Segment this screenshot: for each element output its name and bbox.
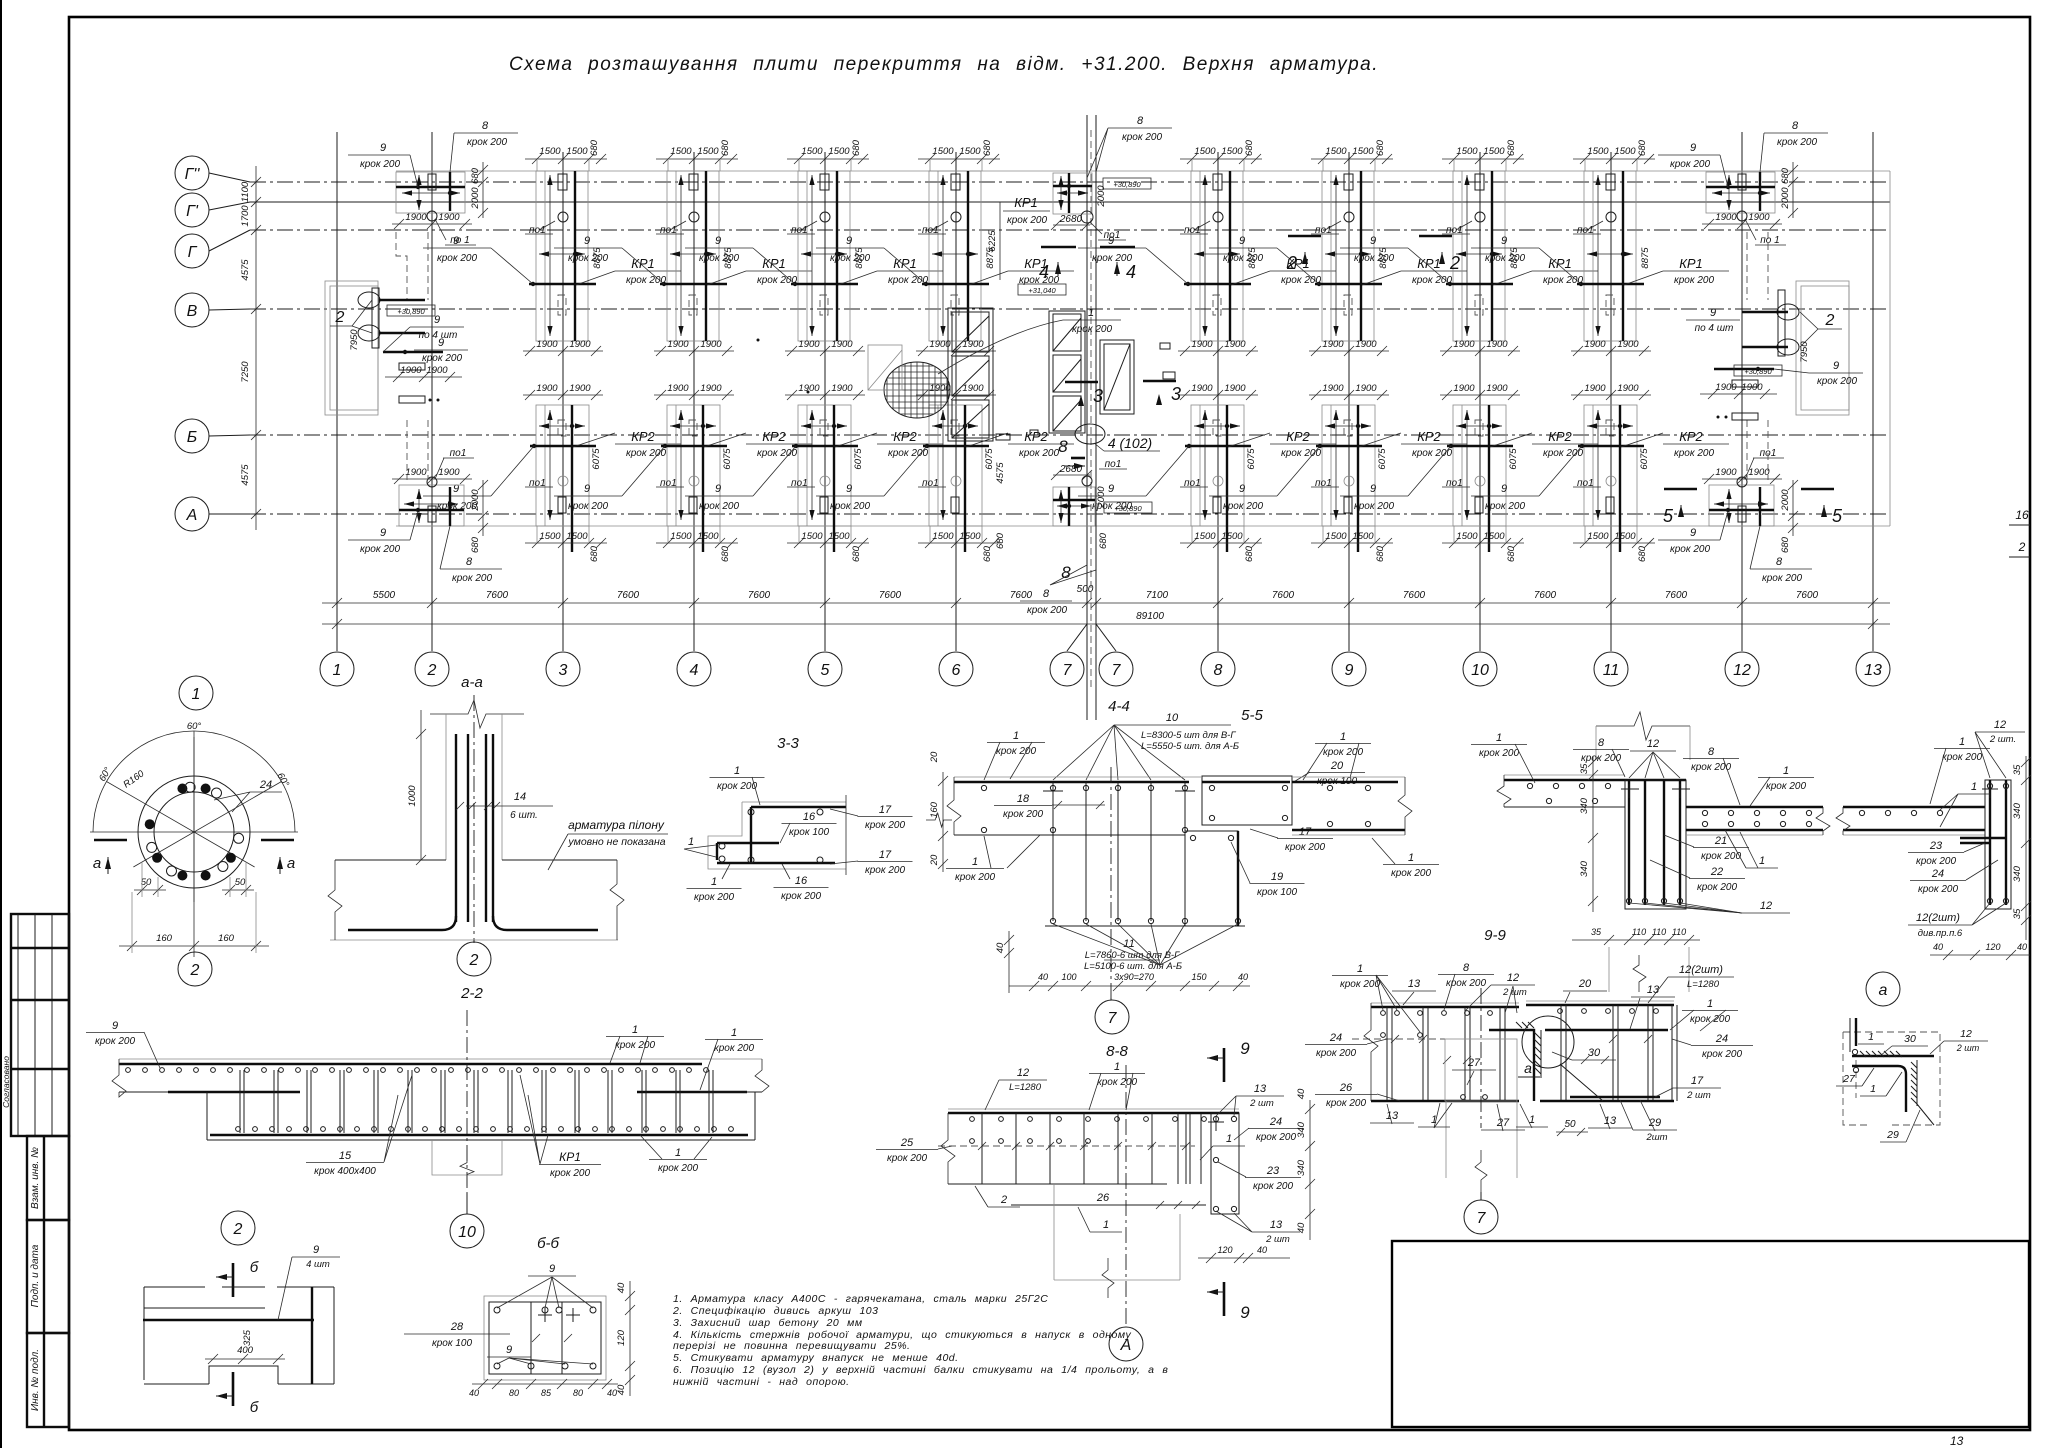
svg-text:110: 110 xyxy=(1632,927,1646,937)
svg-text:+30,890: +30,890 xyxy=(1113,180,1141,189)
2-2 left step xyxy=(206,1092,208,1140)
grid bubble 4 xyxy=(677,652,711,686)
svg-text:6075: 6075 xyxy=(853,448,864,470)
grid column 3 line xyxy=(562,152,564,651)
svg-text:крок 200: крок 200 xyxy=(955,872,995,883)
svg-text:крок 100: крок 100 xyxy=(789,827,829,838)
corner reinforcement module (top) at x=1742 xyxy=(1658,120,1828,246)
pylon 160 160 dim xyxy=(119,945,269,947)
svg-text:6075: 6075 xyxy=(1508,448,1519,470)
grid bubble 10 xyxy=(1463,652,1497,686)
svg-text:4575: 4575 xyxy=(240,259,251,281)
svg-text:1: 1 xyxy=(675,1147,681,1159)
svg-text:21: 21 xyxy=(1714,835,1727,847)
svg-text:1: 1 xyxy=(1226,1133,1232,1145)
node a diagonal xyxy=(1917,1104,1934,1125)
grid row Г'' xyxy=(209,173,250,182)
svg-text:24: 24 xyxy=(1329,1032,1342,1044)
svg-text:1: 1 xyxy=(1357,963,1363,975)
svg-text:27: 27 xyxy=(1467,1057,1481,1069)
svg-text:крок 200: крок 200 xyxy=(1354,501,1394,512)
8-8 bubble A xyxy=(1109,1327,1143,1361)
svg-text:крок 100: крок 100 xyxy=(432,1338,472,1349)
svg-text:Б: Б xyxy=(187,429,197,446)
svg-text:1900: 1900 xyxy=(700,383,722,394)
svg-text:8875: 8875 xyxy=(1640,247,1651,269)
left shaft door ovals xyxy=(358,292,380,308)
svg-text:А: А xyxy=(186,507,198,524)
8-8 extra verticals right part xyxy=(1177,1113,1179,1184)
svg-text:по1: по1 xyxy=(450,448,467,459)
grid column 5 line xyxy=(824,152,826,651)
svg-text:1900: 1900 xyxy=(1584,383,1606,394)
svg-text:1500: 1500 xyxy=(1194,146,1216,157)
2-2 center bracket xyxy=(432,1140,502,1175)
svg-text:1900: 1900 xyxy=(1617,383,1639,394)
node a hatch strip vertical xyxy=(1911,1062,1917,1104)
grid row Г xyxy=(209,230,250,251)
svg-text:1900: 1900 xyxy=(1715,212,1737,223)
svg-text:крок 200: крок 200 xyxy=(360,544,400,555)
svg-text:1: 1 xyxy=(333,662,342,679)
svg-text:1900: 1900 xyxy=(536,383,558,394)
svg-text:9: 9 xyxy=(1370,235,1376,247)
svg-text:1900: 1900 xyxy=(1322,339,1344,350)
svg-text:1500: 1500 xyxy=(1456,531,1478,542)
svg-text:1700: 1700 xyxy=(240,205,251,227)
8-8 line under 26 xyxy=(1011,1204,1206,1206)
svg-text:12: 12 xyxy=(1994,719,2006,731)
svg-text:17: 17 xyxy=(879,804,892,816)
svg-text:крок 200: крок 200 xyxy=(830,501,870,512)
svg-text:27: 27 xyxy=(1496,1117,1510,1129)
svg-text:1900: 1900 xyxy=(400,365,422,376)
svg-text:3х90=270: 3х90=270 xyxy=(1114,972,1154,982)
4-4/5-5 shared slab piece right xyxy=(1292,776,1405,778)
4-4 right boxes xyxy=(1202,776,1292,825)
KP2 reinforcement module at x=1611 xyxy=(1471,383,1729,562)
svg-text:крок 200: крок 200 xyxy=(360,159,400,170)
KP2 reinforcement module at x=1349 xyxy=(1209,383,1467,562)
right end detail column box xyxy=(1985,780,2011,909)
svg-text:19: 19 xyxy=(1271,871,1283,883)
svg-text:крок 200: крок 200 xyxy=(95,1036,135,1047)
pylon inner circle xyxy=(154,792,234,872)
right stair shaft outline xyxy=(1796,281,1849,415)
svg-text:КР2: КР2 xyxy=(631,429,655,444)
KP1 reinforcement module at x=825 xyxy=(685,139,943,356)
svg-text:2: 2 xyxy=(233,1221,243,1238)
9-9 center dashdot xyxy=(1480,988,1482,1128)
svg-text:1900: 1900 xyxy=(438,212,460,223)
grid bubble 7 xyxy=(1099,652,1133,686)
svg-text:40: 40 xyxy=(469,1388,479,1398)
svg-text:1900: 1900 xyxy=(1715,467,1737,478)
8-8 section marks 9 xyxy=(1223,1048,1226,1082)
svg-text:1: 1 xyxy=(731,1027,737,1039)
svg-text:2000: 2000 xyxy=(1096,486,1107,509)
grid row В xyxy=(209,309,250,310)
left shaft bars xyxy=(379,299,425,301)
svg-text:680: 680 xyxy=(1375,545,1386,562)
svg-text:1: 1 xyxy=(1959,736,1965,748)
8-8 left break xyxy=(941,1113,955,1184)
svg-text:1500: 1500 xyxy=(1614,146,1636,157)
grid column 4 line xyxy=(693,152,695,651)
4-4 bubble 7 xyxy=(1095,1000,1129,1034)
grid column 8 line xyxy=(1217,152,1219,651)
svg-text:крок 200: крок 200 xyxy=(1670,159,1710,170)
pylon 50 dims xyxy=(134,889,166,891)
2-2 top rebar xyxy=(119,1063,702,1065)
bubble a right xyxy=(1866,972,1900,1006)
overall dimension line 89100 xyxy=(322,623,1890,625)
svg-text:крок 200: крок 200 xyxy=(1690,1014,1730,1025)
svg-text:8: 8 xyxy=(466,556,473,568)
svg-text:7600: 7600 xyxy=(748,590,771,601)
svg-text:9: 9 xyxy=(549,1263,555,1275)
svg-text:+31,040: +31,040 xyxy=(1028,286,1056,295)
section mark 4 (left) xyxy=(1041,246,1076,249)
svg-text:325: 325 xyxy=(242,1329,253,1346)
door panels left of col 7 xyxy=(1049,311,1085,433)
svg-text:1500: 1500 xyxy=(1456,146,1478,157)
9-9 left break xyxy=(1364,1003,1378,1101)
svg-text:8: 8 xyxy=(1058,437,1068,456)
svg-text:40: 40 xyxy=(1038,972,1048,982)
3-3 top bar xyxy=(751,806,846,808)
svg-text:1900: 1900 xyxy=(667,339,689,350)
grid bubble 9 xyxy=(1332,652,1366,686)
svg-text:1: 1 xyxy=(972,856,978,868)
svg-text:7250: 7250 xyxy=(240,361,251,383)
svg-text:6075: 6075 xyxy=(1377,448,1388,470)
svg-text:4 шт: 4 шт xyxy=(306,1259,330,1270)
svg-text:6075: 6075 xyxy=(1246,448,1257,470)
KP1 reinforcement module at x=563 xyxy=(423,139,681,356)
svg-text:L=1280: L=1280 xyxy=(1687,979,1720,990)
svg-text:1900: 1900 xyxy=(1191,383,1213,394)
svg-text:2: 2 xyxy=(427,662,437,679)
right end detail slab xyxy=(1843,806,1985,808)
svg-text:680: 680 xyxy=(982,139,993,156)
svg-text:2 шт: 2 шт xyxy=(1265,1234,1290,1245)
corner reinforcement module (top) at x=432 xyxy=(348,120,518,246)
svg-text:1500: 1500 xyxy=(1587,146,1609,157)
grid bubble 5 xyxy=(808,652,842,686)
svg-text:6. Позицію 12 (вузол 2) у вер: 6. Позицію 12 (вузол 2) у верхній частин… xyxy=(673,1364,1168,1376)
svg-text:23: 23 xyxy=(1929,840,1943,852)
svg-text:9: 9 xyxy=(846,483,852,495)
svg-text:1500: 1500 xyxy=(1221,531,1243,542)
svg-text:КР1: КР1 xyxy=(559,1150,581,1164)
svg-text:2: 2 xyxy=(469,952,479,969)
svg-text:1500: 1500 xyxy=(1352,146,1374,157)
svg-text:Согласовано: Согласовано xyxy=(1,1056,11,1108)
svg-text:КР1: КР1 xyxy=(1417,256,1441,271)
pylon section marks a-a xyxy=(94,839,127,842)
svg-text:1500: 1500 xyxy=(697,531,719,542)
б-б plus marks xyxy=(538,1308,552,1322)
svg-text:80: 80 xyxy=(509,1388,519,1398)
svg-text:6075: 6075 xyxy=(984,448,995,470)
svg-text:крок 200: крок 200 xyxy=(1762,573,1802,584)
8-8 stirrups xyxy=(981,1113,983,1184)
node a dashed outline xyxy=(1843,1032,1940,1125)
svg-text:2 шт: 2 шт xyxy=(1956,1043,1980,1053)
svg-text:30: 30 xyxy=(1904,1033,1916,1045)
5-5 bottom dims 35/110/110/110 xyxy=(1572,939,1700,941)
svg-text:1500: 1500 xyxy=(1325,146,1347,157)
svg-text:680: 680 xyxy=(1244,545,1255,562)
node a hatch strip horizontal xyxy=(1860,1051,1902,1057)
svg-text:2-2: 2-2 xyxy=(460,985,483,1002)
svg-text:крок 200: крок 200 xyxy=(467,137,507,148)
svg-text:12(2шт): 12(2шт) xyxy=(1679,964,1723,976)
svg-text:1: 1 xyxy=(711,876,717,888)
svg-text:1900: 1900 xyxy=(1322,383,1344,394)
svg-text:1: 1 xyxy=(1114,1061,1120,1073)
svg-text:680: 680 xyxy=(851,139,862,156)
svg-text:1500: 1500 xyxy=(1587,531,1609,542)
svg-text:7: 7 xyxy=(1108,1010,1118,1027)
svg-text:2000: 2000 xyxy=(470,187,481,210)
svg-text:крок 200: крок 200 xyxy=(1817,376,1857,387)
svg-text:крок 200: крок 200 xyxy=(887,1153,927,1164)
svg-text:11: 11 xyxy=(1603,662,1620,679)
2-2 right break xyxy=(755,1059,769,1092)
grid bubble 12 xyxy=(1725,652,1759,686)
2-2 dashed center xyxy=(466,1010,468,1193)
5-5 slab right part xyxy=(1686,806,1823,808)
svg-text:28: 28 xyxy=(450,1321,464,1333)
svg-text:2: 2 xyxy=(1825,312,1835,329)
svg-text:16: 16 xyxy=(795,875,808,887)
3-3 bar circles xyxy=(748,809,754,815)
a-a dim 1000 xyxy=(420,710,422,860)
svg-text:б-б: б-б xyxy=(537,1235,559,1252)
svg-text:а: а xyxy=(1524,1060,1532,1076)
left margin stamp: inventory blocks xyxy=(27,1136,69,1220)
column 7 double wall lines xyxy=(1086,115,1088,720)
svg-text:30: 30 xyxy=(1588,1047,1601,1059)
svg-text:1: 1 xyxy=(1759,855,1765,867)
svg-text:1900: 1900 xyxy=(1748,467,1770,478)
9-9 hatch marks in circle xyxy=(1516,1022,1534,1028)
svg-text:крок 200: крок 200 xyxy=(714,1043,754,1054)
svg-text:1900: 1900 xyxy=(1453,339,1475,350)
svg-text:3: 3 xyxy=(559,662,568,679)
svg-text:120: 120 xyxy=(1985,942,2000,952)
slab top edge xyxy=(396,170,1890,172)
svg-text:крок 200: крок 200 xyxy=(1543,448,1583,459)
svg-text:13: 13 xyxy=(1864,662,1882,679)
svg-text:1900: 1900 xyxy=(1715,382,1737,393)
svg-text:8: 8 xyxy=(1463,962,1470,974)
svg-text:крок 200: крок 200 xyxy=(1354,253,1394,264)
KP1 reinforcement module at x=1611 xyxy=(1471,139,1729,356)
svg-text:22: 22 xyxy=(1710,866,1723,878)
svg-text:7600: 7600 xyxy=(1665,590,1688,601)
svg-text:9: 9 xyxy=(715,483,721,495)
svg-text:7: 7 xyxy=(1477,1210,1487,1227)
svg-text:26: 26 xyxy=(1096,1192,1110,1204)
5-5 bottom break xyxy=(1633,955,1646,992)
svg-text:крок 200: крок 200 xyxy=(830,253,870,264)
svg-text:9: 9 xyxy=(506,1344,512,1356)
small wall rects near col 6 xyxy=(948,308,993,441)
svg-text:26: 26 xyxy=(1339,1082,1353,1094)
svg-text:арматура пілону: арматура пілону xyxy=(568,818,665,832)
svg-text:2шт: 2шт xyxy=(1645,1132,1667,1143)
svg-text:24: 24 xyxy=(1931,868,1944,880)
svg-text:крок 200: крок 200 xyxy=(658,1163,698,1174)
svg-text:КР1: КР1 xyxy=(631,256,655,271)
svg-text:1900: 1900 xyxy=(1486,339,1508,350)
svg-text:4 (102): 4 (102) xyxy=(1108,435,1152,451)
svg-text:2680: 2680 xyxy=(1059,464,1083,475)
svg-text:9: 9 xyxy=(112,1020,118,1032)
svg-text:умовно не показана: умовно не показана xyxy=(567,836,665,848)
б section mark bottom xyxy=(232,1372,235,1406)
svg-text:9: 9 xyxy=(1108,483,1114,495)
svg-text:крок 200: крок 200 xyxy=(757,448,797,459)
a-a rebar elbows xyxy=(348,916,456,930)
svg-text:9: 9 xyxy=(1710,307,1716,319)
svg-text:12: 12 xyxy=(1017,1067,1029,1079)
svg-text:7600: 7600 xyxy=(1796,590,1819,601)
9-9 lower outline xyxy=(1445,1101,1447,1178)
svg-text:8: 8 xyxy=(1043,588,1050,600)
detail 2 dims xyxy=(205,1358,285,1360)
a-a slab breaks xyxy=(328,860,342,940)
svg-text:50: 50 xyxy=(235,877,246,888)
svg-text:1500: 1500 xyxy=(959,146,981,157)
svg-text:4: 4 xyxy=(690,662,699,679)
svg-text:1500: 1500 xyxy=(1483,146,1505,157)
svg-text:5: 5 xyxy=(821,662,830,679)
svg-text:1: 1 xyxy=(734,765,740,777)
svg-text:1: 1 xyxy=(1103,1219,1109,1231)
svg-text:16: 16 xyxy=(2015,508,2029,522)
svg-text:крок 100: крок 100 xyxy=(1257,887,1297,898)
grid row А xyxy=(209,513,250,515)
svg-text:6075: 6075 xyxy=(1639,448,1650,470)
svg-text:1900: 1900 xyxy=(405,212,427,223)
svg-text:40: 40 xyxy=(1933,942,1943,952)
pylon radial line 30 xyxy=(107,782,255,868)
svg-text:1: 1 xyxy=(1408,852,1414,864)
grid column 13 line xyxy=(1872,132,1874,651)
svg-text:9: 9 xyxy=(438,337,444,349)
right shaft bars xyxy=(1742,311,1788,313)
9-9 detail circle xyxy=(1522,1016,1574,1068)
svg-text:1: 1 xyxy=(1013,730,1019,742)
svg-text:крок 200: крок 200 xyxy=(422,353,462,364)
3-3 right dim 20/160/20 xyxy=(942,772,944,872)
svg-text:крок 200: крок 200 xyxy=(452,573,492,584)
svg-text:9: 9 xyxy=(1345,662,1354,679)
grid row Г' xyxy=(209,202,250,210)
svg-text:1900: 1900 xyxy=(569,383,591,394)
svg-text:крок 200: крок 200 xyxy=(717,781,757,792)
svg-text:6225: 6225 xyxy=(987,230,998,252)
3-3 right cut xyxy=(845,795,847,875)
svg-text:27: 27 xyxy=(1842,1073,1856,1085)
svg-text:1500: 1500 xyxy=(566,531,588,542)
б-б bottom dims xyxy=(472,1383,618,1385)
svg-text:10: 10 xyxy=(1471,662,1489,679)
svg-text:крок 200: крок 200 xyxy=(1777,137,1817,148)
2-2 bottom circles xyxy=(236,1127,241,1132)
svg-text:7: 7 xyxy=(1063,662,1073,679)
svg-text:по 4 шт: по 4 шт xyxy=(1695,323,1734,334)
8-8 right column box xyxy=(1211,1113,1239,1214)
svg-text:крок 200: крок 200 xyxy=(550,1168,590,1179)
4-4 left break xyxy=(947,777,961,835)
KP2 reinforcement module at x=1218 xyxy=(1078,383,1336,562)
grid column 11 line xyxy=(1610,152,1612,651)
svg-text:1900: 1900 xyxy=(798,339,820,350)
svg-text:12: 12 xyxy=(1733,662,1751,679)
svg-text:крок 200: крок 200 xyxy=(1027,605,1067,616)
grid column 10 line xyxy=(1479,152,1481,651)
svg-text:1500: 1500 xyxy=(1325,531,1347,542)
svg-text:680: 680 xyxy=(1506,139,1517,156)
svg-text:1500: 1500 xyxy=(670,146,692,157)
svg-text:крок 200: крок 200 xyxy=(1670,544,1710,555)
a-a slab lines xyxy=(335,859,446,861)
svg-text:40: 40 xyxy=(616,1282,627,1293)
svg-text:24: 24 xyxy=(1269,1116,1282,1128)
svg-text:10: 10 xyxy=(458,1224,476,1241)
svg-text:8-8: 8-8 xyxy=(1106,1043,1128,1060)
svg-text:Инв. № подл.: Инв. № подл. xyxy=(30,1349,41,1411)
svg-text:50: 50 xyxy=(141,877,152,888)
svg-text:9: 9 xyxy=(1690,142,1696,154)
bottom dimension line (bays) xyxy=(322,602,1890,604)
svg-text:5: 5 xyxy=(1832,506,1843,526)
svg-text:8: 8 xyxy=(1061,563,1071,582)
svg-text:4-4: 4-4 xyxy=(1108,698,1130,715)
2-2 slab bottom edge xyxy=(207,1139,755,1141)
svg-text:680: 680 xyxy=(1098,532,1109,549)
svg-text:23: 23 xyxy=(1266,1165,1280,1177)
grid bubble 6 xyxy=(939,652,973,686)
svg-text:крок 200: крок 200 xyxy=(1391,868,1431,879)
svg-text:1900: 1900 xyxy=(1584,339,1606,350)
title block xyxy=(1392,1241,2029,1427)
9-9 diagonal leader from circle xyxy=(1560,1064,1603,1101)
KP2 reinforcement module at x=956 xyxy=(816,383,1074,562)
9-9 right bottom bar xyxy=(1540,1100,1674,1102)
svg-text:1500: 1500 xyxy=(539,146,561,157)
svg-text:1: 1 xyxy=(1707,998,1713,1010)
svg-text:8: 8 xyxy=(1708,746,1715,758)
svg-text:680: 680 xyxy=(589,139,600,156)
svg-text:1500: 1500 xyxy=(1483,531,1505,542)
svg-text:+30,890: +30,890 xyxy=(397,307,425,316)
pylon outer circle xyxy=(138,776,250,888)
svg-text:1: 1 xyxy=(632,1024,638,1036)
svg-text:100: 100 xyxy=(1061,972,1076,982)
left margin stamp: approval table xyxy=(11,914,69,1136)
grid bubble 3 xyxy=(546,652,580,686)
svg-text:7600: 7600 xyxy=(617,590,640,601)
svg-text:340: 340 xyxy=(2012,802,2023,819)
svg-text:160: 160 xyxy=(218,933,235,944)
misc small marks xyxy=(868,345,902,390)
